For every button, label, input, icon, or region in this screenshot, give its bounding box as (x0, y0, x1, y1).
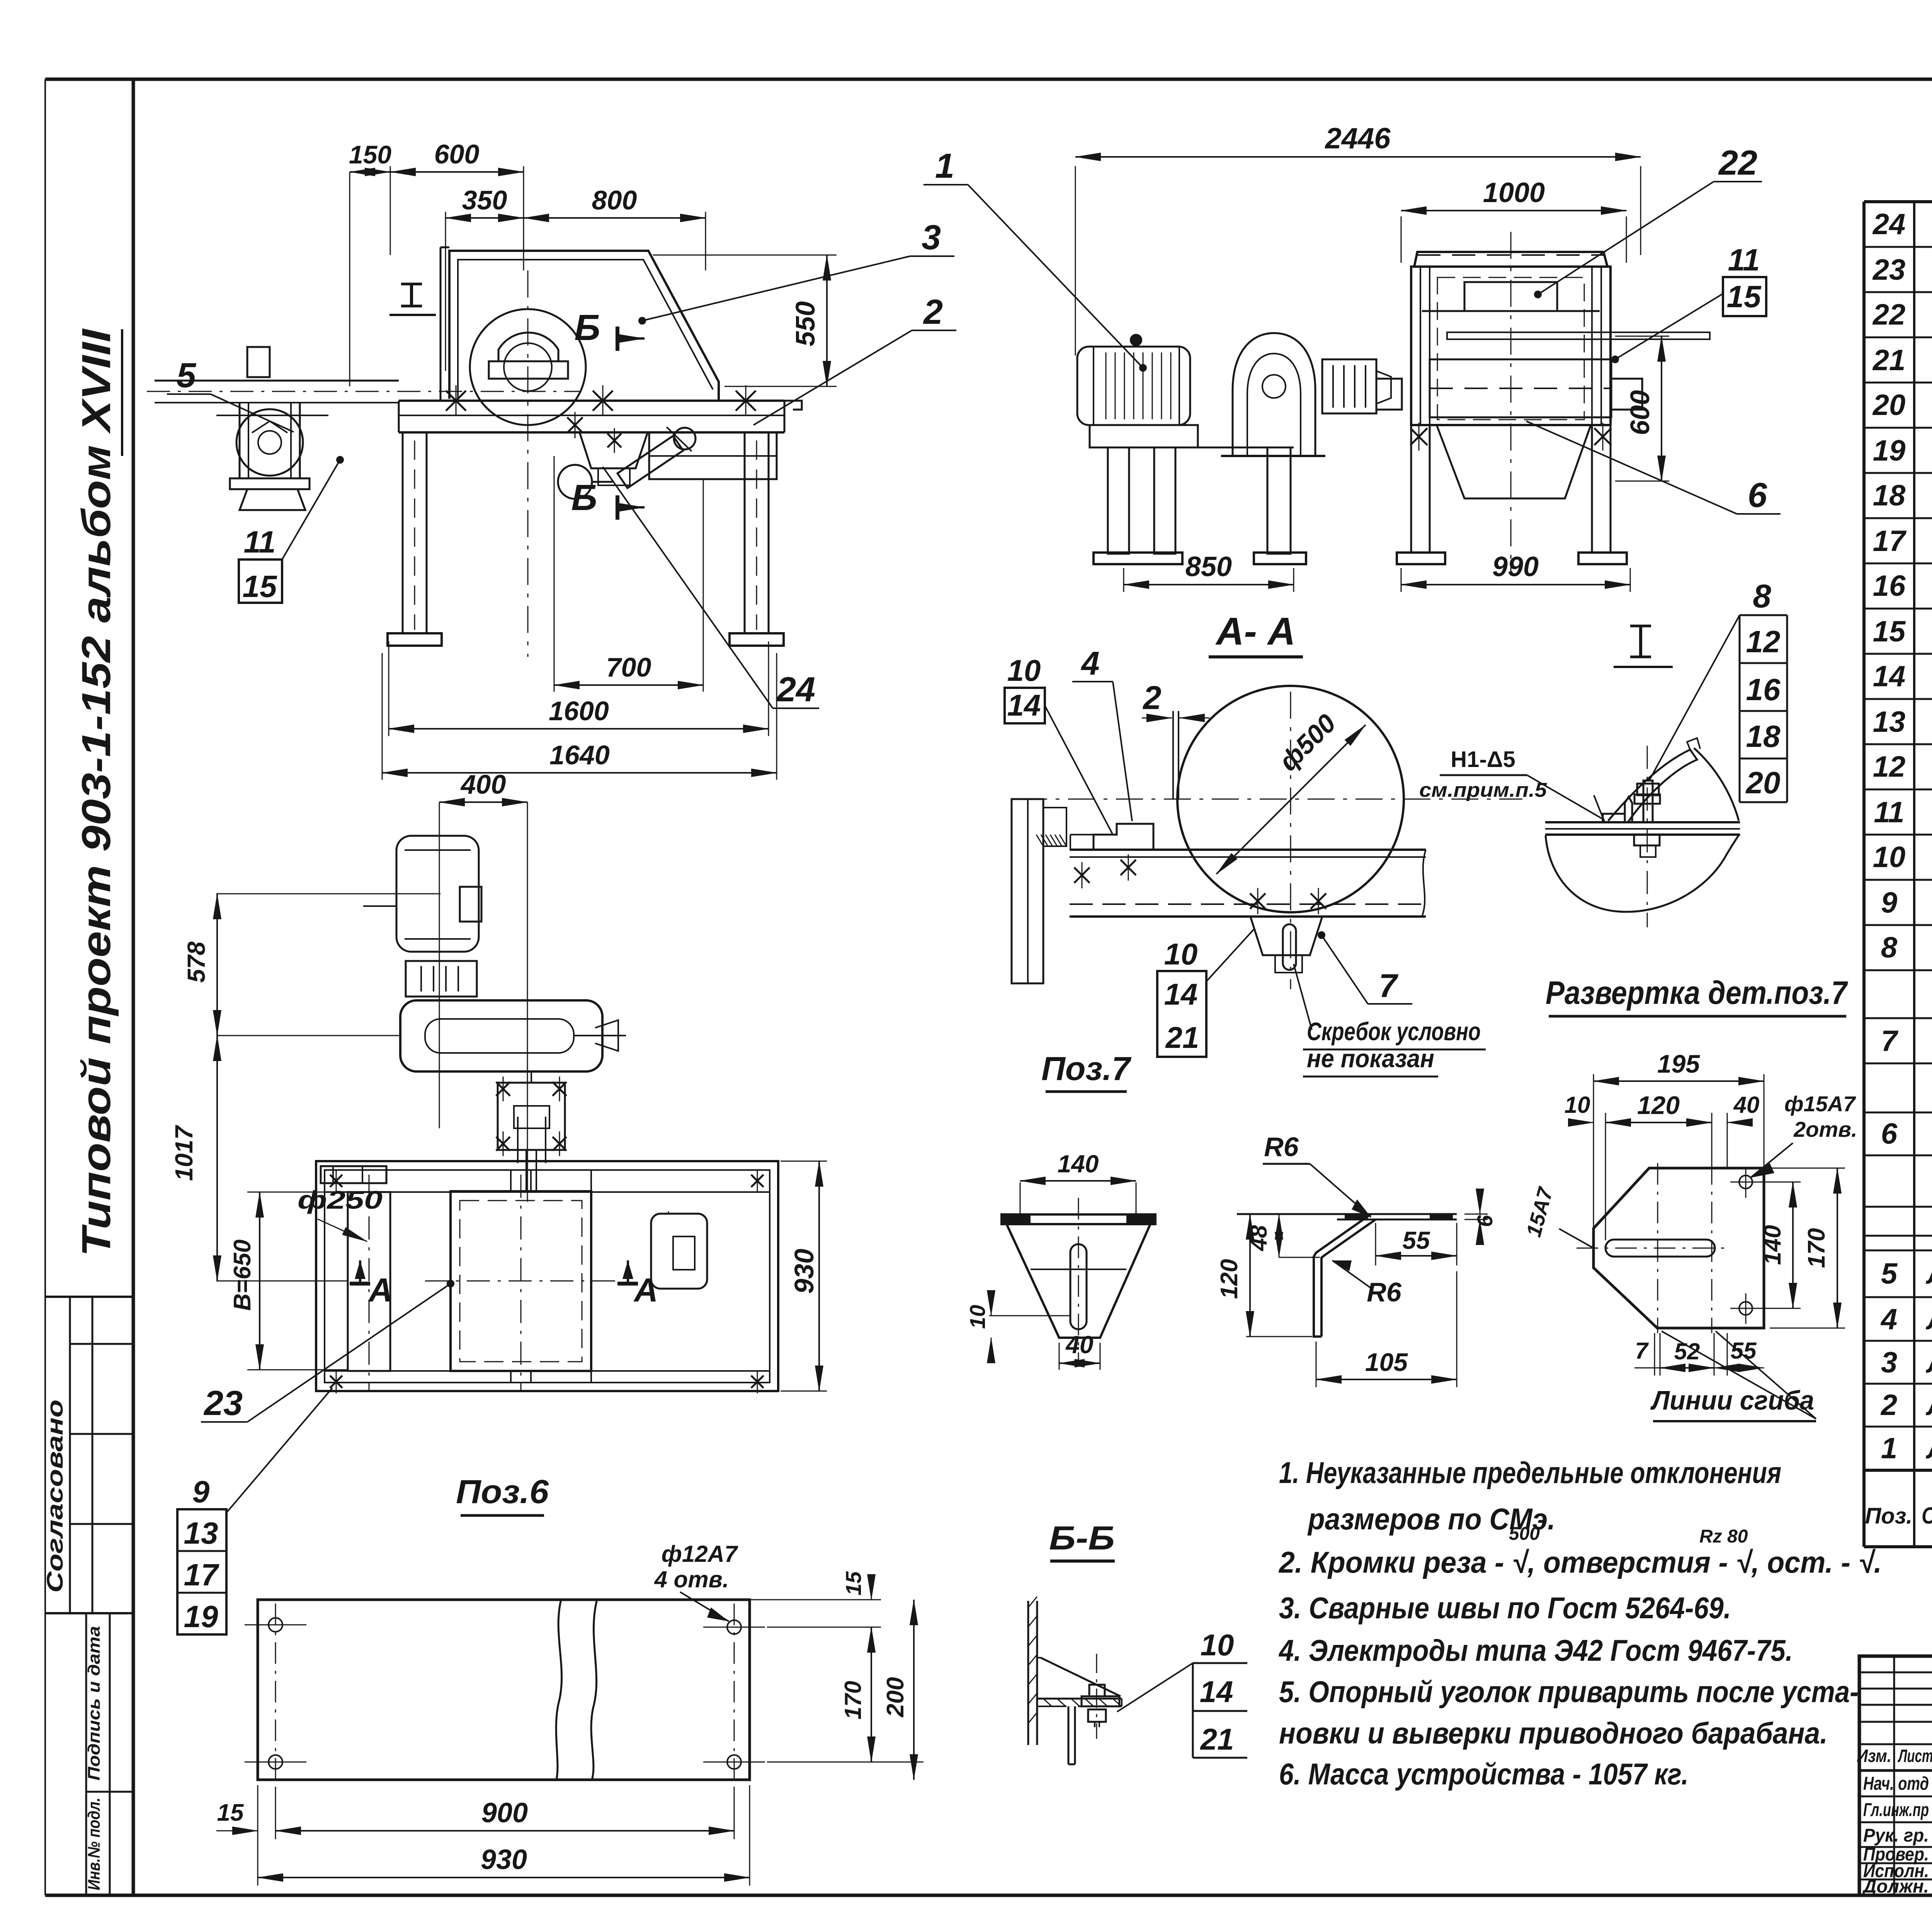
svg-text:2отв.: 2отв. (1793, 1117, 1857, 1141)
svg-text:Лист: Лист (1898, 1746, 1932, 1766)
svg-text:14: 14 (1007, 688, 1041, 722)
svg-text:Поз.7: Поз.7 (1041, 1050, 1132, 1087)
svg-text:200: 200 (882, 1677, 909, 1717)
svg-text:40: 40 (1733, 1092, 1760, 1118)
svg-text:12: 12 (1746, 624, 1781, 659)
svg-text:2: 2 (923, 293, 943, 332)
svg-text:22: 22 (1718, 144, 1757, 182)
svg-text:195: 195 (1657, 1049, 1700, 1078)
svg-text:8: 8 (1881, 931, 1898, 964)
svg-text:1600: 1600 (549, 696, 609, 726)
svg-text:5: 5 (1881, 1257, 1898, 1290)
svg-text:1: 1 (935, 147, 954, 185)
svg-text:Б: Б (571, 477, 597, 518)
svg-text:1: 1 (1881, 1432, 1897, 1465)
svg-text:15: 15 (243, 569, 277, 604)
svg-text:1017: 1017 (170, 1124, 198, 1181)
svg-text:600: 600 (1625, 390, 1655, 435)
svg-text:Н1-Δ5: Н1-Δ5 (1451, 747, 1515, 772)
svg-text:120: 120 (1216, 1259, 1243, 1299)
svg-text:21: 21 (1872, 344, 1906, 377)
svg-text:14: 14 (1200, 1675, 1233, 1709)
svg-text:350: 350 (462, 185, 507, 215)
svg-text:Согласовано: Согласовано (43, 1400, 68, 1593)
svg-text:24: 24 (776, 670, 815, 709)
svg-text:4 отв.: 4 отв. (654, 1566, 729, 1592)
svg-text:6: 6 (1748, 476, 1767, 515)
svg-text:14: 14 (1164, 977, 1198, 1011)
svg-text:120: 120 (1637, 1091, 1680, 1119)
svg-text:Нач. отд: Нач. отд (1863, 1774, 1929, 1794)
svg-text:ф12А7: ф12А7 (662, 1541, 738, 1567)
svg-text:1. Неуказанные предельные от: 1. Неуказанные предельные отклонения (1279, 1456, 1781, 1490)
svg-text:2. Кромки реза - √, отверстия: 2. Кромки реза - √, отверстия - √, ост. … (1278, 1545, 1882, 1579)
svg-text:140: 140 (1759, 1225, 1786, 1265)
svg-text:10: 10 (1201, 1628, 1234, 1662)
svg-text:1000: 1000 (1483, 177, 1545, 208)
svg-text:3: 3 (1881, 1346, 1897, 1379)
svg-text:17: 17 (184, 1558, 219, 1592)
svg-text:Типовой проект 903-1-152 а: Типовой проект 903-1-152 альбом XVIII (74, 328, 119, 1257)
svg-text:550: 550 (790, 301, 820, 347)
svg-text:15: 15 (217, 1799, 244, 1826)
svg-text:10: 10 (1164, 937, 1198, 971)
svg-text:B=650: B=650 (229, 1240, 256, 1311)
svg-text:2446: 2446 (1324, 122, 1391, 155)
svg-text:Скребок условно: Скребок условно (1307, 1017, 1481, 1046)
svg-text:7: 7 (1881, 1025, 1899, 1058)
svg-text:10: 10 (1565, 1092, 1590, 1118)
svg-text:не показан: не показан (1307, 1044, 1434, 1073)
svg-text:ф15А7: ф15А7 (1784, 1092, 1856, 1116)
svg-text:Поз.: Поз. (1865, 1503, 1913, 1529)
svg-text:40: 40 (1065, 1331, 1093, 1359)
svg-text:19: 19 (1873, 434, 1906, 467)
svg-text:23: 23 (1872, 253, 1906, 286)
svg-text:Поз.6: Поз.6 (456, 1473, 549, 1510)
svg-text:9: 9 (1881, 886, 1897, 919)
svg-text:7: 7 (1379, 968, 1398, 1004)
svg-text:11: 11 (1728, 243, 1760, 277)
svg-text:10: 10 (1007, 653, 1041, 687)
svg-text:ф250: ф250 (298, 1185, 383, 1214)
svg-text:170: 170 (1803, 1228, 1830, 1268)
svg-text:Линии сгиба: Линии сгиба (1650, 1385, 1814, 1415)
svg-text:6. Масса устройства - 1057 кг: 6. Масса устройства - 1057 кг. (1279, 1757, 1689, 1791)
svg-text:R6: R6 (1367, 1277, 1402, 1307)
svg-text:6: 6 (1473, 1215, 1497, 1227)
svg-text:9: 9 (192, 1475, 210, 1509)
svg-text:R6: R6 (1264, 1132, 1299, 1162)
svg-text:24: 24 (1872, 208, 1906, 241)
svg-text:21: 21 (1200, 1722, 1234, 1756)
svg-text:10: 10 (965, 1305, 990, 1329)
svg-text:Изм.: Изм. (1857, 1746, 1891, 1766)
svg-text:А: А (633, 1272, 658, 1309)
svg-text:6: 6 (1881, 1117, 1898, 1150)
svg-text:700: 700 (606, 652, 651, 682)
svg-text:см.прим.п.5: см.прим.п.5 (1419, 779, 1547, 801)
svg-text:Инв.№ подл.: Инв.№ подл. (85, 1798, 104, 1890)
svg-text:А- А: А- А (1215, 610, 1296, 653)
svg-text:3. Сварные швы по Гост 5264: 3. Сварные швы по Гост 5264-69. (1279, 1591, 1731, 1625)
svg-text:500: 500 (1509, 1524, 1540, 1544)
svg-text:Б: Б (574, 307, 600, 348)
svg-text:А: А (368, 1272, 393, 1309)
svg-text:18: 18 (1873, 479, 1906, 512)
svg-text:17: 17 (1873, 525, 1907, 558)
svg-text:600: 600 (434, 139, 480, 169)
svg-text:1640: 1640 (549, 740, 610, 770)
svg-text:4. Электроды типа Э42 Гост: 4. Электроды типа Э42 Гост 9467-75. (1278, 1633, 1793, 1667)
svg-text:22: 22 (1872, 298, 1906, 331)
svg-text:14: 14 (1873, 660, 1906, 693)
svg-text:170: 170 (840, 1681, 866, 1719)
svg-text:Обозначение: Обозначение (1922, 1503, 1932, 1529)
svg-text:930: 930 (481, 1844, 527, 1875)
svg-text:16: 16 (1746, 672, 1781, 707)
svg-text:800: 800 (592, 185, 637, 215)
svg-text:5. Опорный уголок приварить: 5. Опорный уголок приварить после уста- (1279, 1675, 1859, 1709)
svg-text:3: 3 (922, 218, 941, 257)
svg-text:55: 55 (1402, 1226, 1430, 1254)
svg-text:7: 7 (1635, 1338, 1649, 1364)
svg-text:8: 8 (1753, 578, 1771, 615)
svg-text:Подпись и дата: Подпись и дата (85, 1626, 104, 1781)
svg-text:13: 13 (184, 1516, 218, 1550)
svg-text:105: 105 (1365, 1348, 1408, 1376)
svg-text:новки и выверки приводного: новки и выверки приводного барабана. (1279, 1716, 1828, 1750)
svg-text:11: 11 (1874, 796, 1905, 829)
svg-text:Рук. гр.: Рук. гр. (1863, 1825, 1929, 1846)
svg-text:19: 19 (184, 1599, 218, 1634)
svg-text:850: 850 (1185, 551, 1232, 582)
svg-text:4: 4 (1080, 645, 1099, 682)
svg-text:10: 10 (1873, 841, 1906, 874)
svg-text:Развертка дет.поз.7: Развертка дет.поз.7 (1546, 975, 1848, 1011)
svg-text:15: 15 (841, 1571, 866, 1595)
svg-text:2: 2 (1880, 1389, 1897, 1422)
svg-text:5: 5 (177, 356, 197, 395)
svg-text:20: 20 (1872, 389, 1906, 422)
svg-text:2: 2 (1142, 680, 1161, 716)
svg-text:18: 18 (1746, 719, 1781, 753)
svg-text:55: 55 (1731, 1338, 1757, 1364)
svg-text:15: 15 (1873, 615, 1906, 648)
svg-text:140: 140 (1058, 1150, 1099, 1178)
svg-text:Гл.инж.пр: Гл.инж.пр (1863, 1800, 1929, 1820)
svg-text:20: 20 (1745, 765, 1781, 800)
svg-text:Rz 80: Rz 80 (1699, 1526, 1748, 1547)
svg-text:990: 990 (1492, 551, 1539, 582)
svg-text:400: 400 (460, 769, 506, 799)
svg-text:12: 12 (1873, 750, 1906, 783)
svg-text:23: 23 (203, 1384, 243, 1423)
svg-text:21: 21 (1165, 1020, 1199, 1054)
svg-text:15: 15 (1727, 279, 1762, 314)
svg-text:578: 578 (182, 941, 210, 983)
svg-text:16: 16 (1873, 570, 1906, 602)
svg-text:Б-Б: Б-Б (1049, 1520, 1115, 1557)
svg-text:4: 4 (1880, 1303, 1897, 1336)
svg-text:150: 150 (349, 140, 391, 169)
svg-text:13: 13 (1873, 706, 1906, 738)
svg-text:Должн.: Должн. (1862, 1876, 1929, 1897)
svg-text:930: 930 (789, 1249, 819, 1294)
svg-text:11: 11 (243, 525, 276, 559)
svg-text:900: 900 (481, 1798, 528, 1828)
